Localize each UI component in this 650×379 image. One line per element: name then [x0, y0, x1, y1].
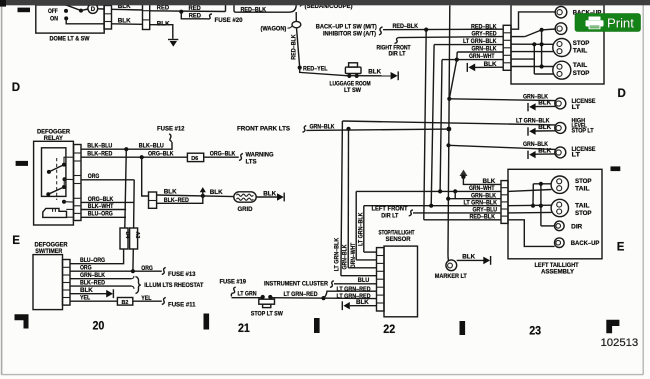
wire front park row [306, 129, 449, 130]
s4 corner into cell1 [364, 251, 377, 253]
grn-blk end hook [132, 276, 134, 279]
svg-text:LT GRN: LT GRN [238, 290, 257, 297]
stop lt sw symbol [261, 295, 265, 299]
svg-text:BLK–RED: BLK–RED [87, 151, 112, 158]
vertical A inside box [541, 30, 543, 67]
svg-text:OFF: OFF [48, 8, 58, 15]
relay dashed link [56, 158, 58, 200]
svg-text:BLK: BLK [538, 100, 551, 107]
right taillight assembly box [511, 5, 604, 84]
blk stub license A [535, 105, 555, 107]
wire row3 to stop/tail bulb [511, 43, 553, 45]
svg-text:BLK: BLK [210, 189, 223, 196]
svg-text:A3: A3 [134, 232, 140, 239]
fuse 13 squiggle [162, 267, 166, 274]
high level stop lt bulb [555, 122, 566, 133]
svg-text:FUSE #13: FUSE #13 [168, 271, 196, 278]
wire red-blk row (from v1) [424, 219, 501, 221]
wire marker blk [457, 259, 484, 261]
corner bracket bottom-left [15, 314, 29, 328]
dir bulb [555, 23, 567, 35]
relay ORG-BLK terminal [62, 200, 66, 204]
svg-text:BLU–ORG: BLU–ORG [80, 257, 105, 264]
vertical s4 to sensor [363, 206, 365, 252]
wire bulb to box edge row1 [98, 8, 104, 10]
s1 corner into cell4 [341, 275, 377, 277]
vertical s3 to sensor [355, 191, 357, 260]
splice arrow sensor blk [341, 301, 343, 310]
wire BLK-WHT row relay [81, 209, 126, 211]
right front dir leader squiggle [395, 38, 399, 44]
svg-text:RED–BLK: RED–BLK [291, 34, 298, 60]
grid connector double box [149, 192, 157, 208]
license lt bulb A [555, 98, 566, 109]
relay blade 2 [48, 187, 64, 194]
wire gry-blu inside to bulb2 bottom [508, 211, 552, 214]
connector block 2 [143, 2, 150, 29]
relay ORG terminal [63, 177, 67, 181]
svg-text:GRY–RED: GRY–RED [472, 31, 497, 38]
stub arrow up from junction [202, 192, 204, 196]
svg-text:INSTRUMENT CLUSTER: INSTRUMENT CLUSTER [264, 281, 328, 288]
vertical v4 grn-wht down [440, 60, 442, 192]
vertical B inside box [533, 44, 535, 74]
wire grn-wht inside to bulb1 bottom [508, 190, 551, 192]
junction node license A [447, 97, 451, 101]
svg-text:DIR LT: DIR LT [381, 212, 398, 219]
top strip left black block [0, 0, 6, 7]
svg-text:FRONT PARK LTS: FRONT PARK LTS [237, 126, 290, 133]
svg-text:TAIL: TAIL [575, 186, 590, 193]
wire red-blk inside L to back-up bulb [508, 220, 555, 247]
blk-red end hook [132, 286, 134, 289]
svg-text:STOP LT: STOP LT [572, 128, 594, 135]
relay connector column [74, 145, 81, 221]
svg-text:RED–BLK: RED–BLK [393, 23, 419, 30]
wire lt grn-blk inside to bulb2 top [508, 204, 551, 207]
license lt bulb C [555, 147, 566, 158]
svg-text:INHIBITOR SW (A/T): INHIBITOR SW (A/T) [323, 30, 376, 37]
svg-text:ORG–BLK: ORG–BLK [148, 151, 174, 158]
connector D6 [187, 153, 203, 161]
svg-text:FUSE #19: FUSE #19 [220, 278, 247, 285]
svg-text:ORG: ORG [80, 265, 92, 272]
wagon leader tick [288, 26, 293, 28]
svg-text:BLK–WHT: BLK–WHT [88, 203, 114, 210]
svg-text:GRN–WHT: GRN–WHT [469, 53, 495, 60]
rheostat brace [136, 277, 141, 294]
wire GRY-RED row [399, 37, 504, 38]
vertical grn-blk short down [456, 52, 458, 60]
connector block 1 [104, 6, 112, 30]
splice arrow right (luggage ground) [391, 72, 398, 80]
svg-text:22: 22 [383, 323, 395, 336]
wire BLK-RED sw row [70, 285, 132, 287]
wire GRN-WHT row with corner [442, 59, 503, 61]
dir bulb left [555, 221, 565, 231]
junction node grn-wht/grn-blk [455, 58, 459, 62]
back-up sw leader squiggle [379, 27, 383, 35]
sw/timer connector column [63, 260, 71, 306]
back-up bulb [555, 6, 567, 18]
svg-text:STOP LT SW: STOP LT SW [251, 310, 283, 317]
svg-text:MARKER LT: MARKER LT [435, 273, 467, 280]
svg-text:23: 23 [529, 325, 541, 338]
wire ON contact down and right [66, 18, 104, 23]
printer icon [586, 17, 604, 30]
right taillight connector [503, 25, 511, 70]
link grn-wht to grn-blk row [454, 191, 456, 198]
svg-text:RED–BLK: RED–BLK [241, 6, 267, 13]
wire gry-red inside [511, 36, 525, 38]
junction node org fuse13 [131, 269, 135, 273]
registration tick left-middle [16, 161, 28, 166]
svg-text:102513: 102513 [601, 337, 639, 349]
splice arrow license A [527, 103, 529, 111]
wire blk row inside to bulb1 top [533, 183, 551, 185]
svg-text:GRN–BLK: GRN–BLK [471, 192, 496, 199]
vertical D inside [532, 184, 534, 206]
svg-text:GRN–WHT: GRN–WHT [350, 243, 357, 269]
registration tick top-left [18, 8, 31, 13]
svg-text:TAIL: TAIL [575, 202, 590, 209]
wire dir bulb [542, 28, 556, 31]
OFF contact dot [64, 9, 68, 13]
svg-text:BLK: BLK [157, 20, 170, 27]
junction nodes on row3 [532, 42, 536, 46]
junction C top [539, 182, 543, 186]
junction node grn-blk/v5 [446, 197, 450, 201]
vertical v1 red-blk down [424, 30, 426, 220]
junction node park/sensor [346, 127, 350, 131]
svg-text:BLK–BLU: BLK–BLU [87, 143, 112, 150]
svg-text:ASSEMBLY: ASSEMBLY [541, 269, 575, 276]
wire row4 to stop/tail bulb lower [511, 51, 553, 53]
bottom tick 1 [204, 314, 210, 330]
dome bulb D [88, 4, 98, 14]
svg-text:FUSE #11: FUSE #11 [168, 301, 196, 308]
svg-text:RED–YEL: RED–YEL [303, 65, 328, 72]
junction node dir [540, 28, 544, 32]
junction node lt grn-blk/v2 [429, 204, 433, 208]
wire license C [449, 145, 556, 149]
svg-text:BLK: BLK [484, 61, 497, 68]
svg-text:GRN–BLK: GRN–BLK [80, 272, 105, 279]
svg-text:DIR LT: DIR LT [389, 51, 406, 58]
wire BLK to grid [157, 195, 234, 197]
svg-text:E: E [617, 241, 625, 253]
junction node license C [446, 143, 450, 147]
wire BLU-ORG sw row up to D4 [70, 249, 124, 264]
wire row1 turn-up stub [225, 5, 227, 12]
svg-text:SENSOR: SENSOR [386, 236, 411, 243]
s2 corner into cell3 [348, 267, 376, 269]
splice arrow left (right taillight BLK) [466, 63, 468, 72]
ON contact dot [64, 16, 68, 20]
svg-text:GRN–BLK: GRN–BLK [472, 46, 497, 53]
svg-text:TAIL: TAIL [573, 62, 588, 69]
wire BLU row [334, 283, 377, 285]
stop/tail bulb [553, 39, 571, 57]
connector B2 [117, 298, 132, 306]
instrument cluster leader squiggle [330, 281, 334, 288]
wire row1 to turn-up [150, 10, 226, 13]
svg-text:GRN–BLK: GRN–BLK [341, 244, 348, 269]
svg-text:DOME LT & SW: DOME LT & SW [50, 35, 91, 42]
svg-text:STOP: STOP [573, 40, 590, 47]
svg-text:STOP: STOP [575, 178, 592, 185]
junction node luggage feed [298, 66, 302, 70]
vertical vA blk-blu down to D4 [125, 149, 127, 228]
svg-text:STOP: STOP [573, 70, 590, 77]
svg-text:BLK: BLK [263, 190, 276, 197]
svg-text:YEL: YEL [141, 295, 151, 302]
back-up bulb left [555, 238, 565, 248]
wire vertical B corner to tail/stop lower [534, 73, 553, 75]
vertical vB org down to A3 [133, 180, 136, 228]
svg-text:ILLUM LTS RHEOSTAT: ILLUM LTS RHEOSTAT [144, 282, 203, 289]
junction node org-blk [140, 155, 144, 159]
junction node park/v5 [447, 127, 452, 132]
tail/stop bulb [553, 61, 571, 79]
wire fuse19 to stop sw [232, 297, 263, 299]
svg-text:21: 21 [238, 322, 250, 335]
wire pivot to dome bulb [81, 9, 88, 11]
wire grid to splice [256, 196, 278, 198]
junction D bottom [531, 204, 535, 208]
wire sensor blk row [350, 305, 377, 307]
svg-text:BLU–ORG: BLU–ORG [88, 211, 113, 218]
svg-text:BLK–RED: BLK–RED [164, 197, 189, 204]
splice arrow blk sw [106, 290, 113, 298]
junction node row6 [540, 64, 544, 68]
wire luggage sw to splice [345, 75, 391, 77]
blk ground stub [463, 177, 501, 185]
vertical v5 grn-blk bus [448, 5, 450, 261]
svg-text:STOP: STOP [575, 210, 592, 217]
wire LT GRN-BLK row with corner [434, 44, 503, 46]
blade1 contact to cell [64, 157, 74, 164]
fuse 19 squiggle [231, 287, 235, 296]
splice arrow license C [527, 151, 529, 159]
wire red-blk loop from clipped top [234, 5, 296, 12]
diagonal to v5 [449, 60, 457, 99]
connector A3 [130, 228, 138, 249]
svg-text:RED–BLK: RED–BLK [471, 23, 497, 30]
wire high level stop row [342, 121, 555, 125]
svg-text:BLK: BLK [356, 299, 369, 306]
wire BLK sw row [70, 293, 107, 295]
svg-text:ORG–BLK: ORG–BLK [210, 151, 236, 158]
wire ORG sw row [70, 270, 162, 272]
branch wire to fuse 20 [181, 12, 207, 19]
svg-text:GRN–WHT: GRN–WHT [469, 185, 495, 192]
splice arrow grid ground [277, 193, 284, 201]
svg-text:20: 20 [93, 319, 105, 332]
wire ORG row to corner [81, 179, 134, 181]
sensor connector [377, 248, 385, 311]
vertical s2 to sensor [347, 129, 349, 268]
sensor box [384, 246, 418, 317]
svg-text:BLK: BLK [80, 287, 93, 294]
svg-text:BLK: BLK [368, 68, 381, 75]
s3 corner into cell2 [356, 259, 376, 261]
wire BLU-ORG row relay [81, 216, 126, 218]
registration tick right-middle [611, 166, 621, 171]
wire GRN-BLK row with corner [457, 51, 503, 53]
svg-text:RED: RED [189, 12, 202, 19]
dome lt & sw box [36, 5, 104, 33]
wire lt grn-blk row [364, 205, 501, 207]
wire dir inside [541, 225, 555, 227]
print button [575, 14, 641, 32]
grid element [234, 192, 256, 202]
wire into ellipse from top [295, 12, 297, 21]
svg-text:GRID: GRID [238, 206, 253, 213]
svg-text:ORG: ORG [141, 265, 153, 272]
svg-text:D: D [618, 88, 626, 100]
wagon connector ellipse [292, 21, 301, 27]
junction node red feed [179, 10, 183, 14]
scan right border [642, 5, 644, 375]
scan bottom border [2, 374, 644, 376]
vertical A3 down [132, 249, 134, 271]
wire row2 to ground [150, 25, 173, 39]
svg-text:LT: LT [572, 104, 581, 111]
svg-text:LT GRN–BLK: LT GRN–BLK [464, 199, 498, 206]
svg-text:BLK: BLK [164, 189, 177, 196]
wire stop sw to junction [270, 297, 376, 300]
wire gry-blu row [413, 212, 501, 214]
vertical RED-BLK wire down [297, 28, 300, 68]
wire D6 to warning [204, 156, 239, 158]
svg-text:LT GRN–RED: LT GRN–RED [284, 291, 318, 298]
fuse 11 squiggle [162, 297, 166, 304]
coil stubs to cells [66, 208, 73, 210]
defogger relay box [34, 141, 74, 225]
wire row5 grn-wht to vertical B [511, 58, 534, 60]
wire row2 conn1-conn2 [112, 23, 143, 26]
marker lt bulb [446, 260, 457, 271]
wire license A [449, 99, 555, 101]
left front dir leader squiggle [409, 210, 413, 216]
switch blade pivot dot [79, 9, 83, 13]
svg-text:BACK–UP LT SW (M/T): BACK–UP LT SW (M/T) [316, 23, 377, 30]
svg-text:B2: B2 [122, 300, 129, 306]
svg-text:LT GRN–BLK: LT GRN–BLK [358, 212, 365, 246]
svg-text:LT: LT [572, 152, 581, 159]
svg-text:RED: RED [189, 5, 202, 12]
svg-text:RED–BLK: RED–BLK [470, 213, 496, 220]
switch blade [65, 5, 81, 11]
svg-text:BLK: BLK [118, 17, 131, 24]
corner bracket bottom-right [606, 320, 619, 334]
bottom tick 3 [460, 321, 466, 335]
svg-text:E: E [12, 235, 20, 247]
svg-text:DIR: DIR [571, 223, 583, 230]
svg-text:LT SW: LT SW [344, 87, 361, 94]
ground symbol [168, 39, 178, 41]
vertical s1 to sensor [341, 121, 343, 276]
junction node lt grn-red [321, 296, 325, 300]
stop/tail bulb left [551, 176, 568, 193]
front park leader squiggle [303, 126, 307, 133]
wire grn-blk row [448, 198, 501, 200]
junction node blk-blu [124, 147, 128, 151]
svg-text:BACK–UP: BACK–UP [571, 240, 600, 247]
wire row6 blk to tail/stop bulb [511, 66, 553, 68]
wire B2 to fuse11 [133, 300, 162, 302]
vertical v2 lt grn-blk down [431, 45, 434, 206]
left taillight assembly box [508, 169, 602, 258]
svg-text:LT GRN–BLK: LT GRN–BLK [463, 38, 497, 45]
left taillight connector [501, 181, 508, 224]
relay coil step element [43, 208, 67, 217]
relay blade 1 [49, 165, 64, 172]
splice arrow marker [483, 257, 490, 265]
wire BLK row [475, 66, 503, 68]
scan left border [1, 5, 3, 375]
svg-text:FUSE #12: FUSE #12 [157, 125, 185, 132]
wire backup inside [511, 12, 555, 29]
svg-text:ON: ON [50, 16, 58, 23]
splice arrow high level [527, 127, 529, 135]
fuse #20 squiggle [208, 14, 213, 19]
sedan leader tick [300, 5, 304, 7]
svg-text:ORG: ORG [88, 173, 100, 180]
fuse 12 squiggle [169, 134, 172, 142]
connector D4 [120, 228, 128, 249]
luggage room lt sw symbol [345, 67, 361, 73]
diagonal gry-red to dir [525, 30, 542, 37]
svg-text:SW/TIMER: SW/TIMER [35, 248, 62, 255]
relay inner box [42, 148, 66, 197]
junction node grn-wht/456 [453, 189, 457, 193]
svg-text:BLK–RED: BLK–RED [80, 280, 105, 287]
svg-text:Print: Print [607, 16, 634, 31]
wire YEL sw row [70, 300, 117, 302]
branch diagonal up [324, 291, 377, 298]
wire GRN-BLK sw row [70, 278, 132, 280]
wire BLK-BLU row [81, 142, 172, 149]
defogger sw/timer box [33, 255, 63, 310]
warning leader squiggle [239, 153, 243, 160]
vertical C inside [540, 184, 542, 226]
svg-text:BLK: BLK [462, 254, 475, 261]
bottom tick 2 [314, 318, 320, 333]
wire row1 conn1-conn2 [112, 8, 143, 11]
junction node grid blk [201, 194, 205, 198]
wire BLK-RED lower [157, 196, 203, 203]
svg-text:LT GRN–RED: LT GRN–RED [337, 286, 371, 293]
svg-text:FUSE #20: FUSE #20 [215, 17, 244, 24]
top dark strip [0, 0, 650, 5]
wire to luggage sw [300, 68, 345, 76]
svg-text:D: D [91, 7, 96, 13]
svg-text:(WAGON): (WAGON) [261, 25, 287, 32]
junction node grn-wht/v4 [438, 189, 442, 193]
vertical org-blk feed down [142, 157, 149, 196]
svg-text:LTS: LTS [246, 158, 257, 165]
svg-text:D6: D6 [191, 156, 198, 162]
blk stub high level [535, 130, 555, 132]
svg-text:D: D [12, 82, 20, 94]
svg-text:LT GRN–BLK: LT GRN–BLK [334, 237, 341, 271]
svg-text:ORG–BLK: ORG–BLK [88, 196, 114, 203]
svg-text:TAIL: TAIL [573, 48, 588, 55]
junction C mid [539, 204, 543, 208]
wire BLK-RED/ORG-BLK row [81, 156, 187, 158]
